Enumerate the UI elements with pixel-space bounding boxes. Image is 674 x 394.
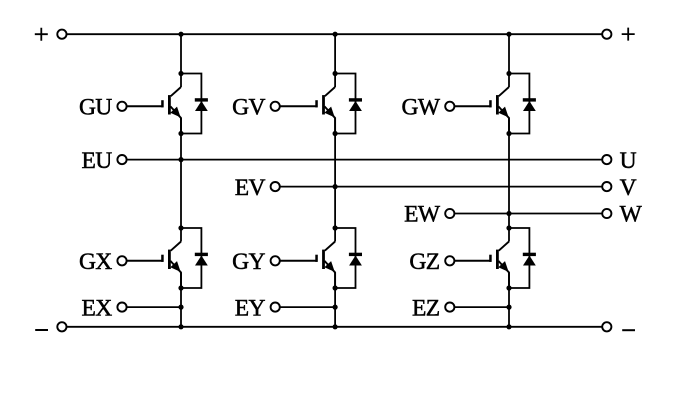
svg-text:V: V xyxy=(620,175,637,201)
svg-text:GV: GV xyxy=(232,95,265,121)
svg-text:W: W xyxy=(620,202,643,228)
svg-text:GZ: GZ xyxy=(409,249,439,275)
svg-text:U: U xyxy=(620,148,637,174)
svg-text:GY: GY xyxy=(232,249,265,275)
svg-text:EX: EX xyxy=(82,295,113,321)
svg-text:EW: EW xyxy=(404,202,441,228)
svg-text:GX: GX xyxy=(79,249,112,275)
svg-text:EY: EY xyxy=(235,295,266,321)
svg-text:EU: EU xyxy=(82,148,113,174)
svg-text:EZ: EZ xyxy=(412,295,440,321)
svg-text:GW: GW xyxy=(402,95,441,121)
svg-text:EV: EV xyxy=(235,175,266,201)
svg-text:GU: GU xyxy=(79,95,112,121)
